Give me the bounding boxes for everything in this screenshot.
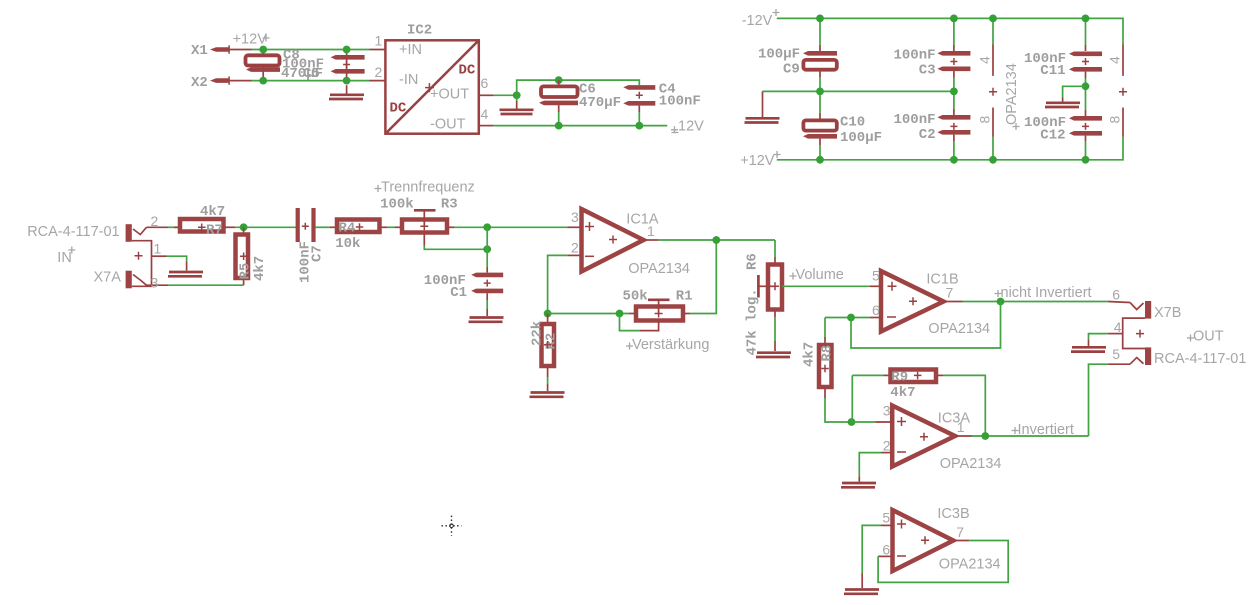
pin header X1	[210, 45, 252, 53]
wire +12V net (X1 to IC2 pin1)	[252, 49, 370, 51]
junction IC3A pin3 node	[848, 418, 856, 426]
origin cross IC1P	[1013, 123, 1020, 130]
svg-text:RCA-4-117-01: RCA-4-117-01	[1154, 351, 1246, 367]
svg-text:100µF: 100µF	[758, 47, 800, 63]
svg-text:+12V: +12V	[740, 153, 775, 169]
svg-text:4k7: 4k7	[252, 256, 268, 281]
mouse crosshair cursor	[442, 516, 462, 536]
pin 2 IC1A	[567, 240, 581, 256]
svg-text:3: 3	[151, 275, 159, 291]
svg-text:X1: X1	[191, 43, 208, 59]
label R5 with origin cross	[238, 253, 254, 280]
pin 5 IC3B	[881, 510, 893, 526]
pin 7 IC3B	[953, 524, 969, 541]
svg-text:C1: C1	[450, 285, 467, 301]
connector X7A	[126, 224, 152, 288]
capacitor C6 (electrolytic)	[539, 86, 578, 105]
ground at IC3A pin2	[841, 483, 876, 487]
svg-text:8: 8	[977, 116, 993, 124]
svg-text:4k7: 4k7	[890, 385, 915, 401]
junction R1 left	[616, 310, 624, 318]
resistor R7	[174, 219, 235, 232]
capacitor C4	[623, 85, 655, 106]
junction C4/-12V	[635, 122, 643, 130]
wire +OUT to junction	[494, 94, 517, 96]
pin 4 IC2	[479, 106, 494, 126]
capacitor C12	[1069, 116, 1102, 136]
wire R4 to R3	[387, 226, 395, 228]
wire pin1 to ground	[167, 256, 187, 262]
resistor R9	[884, 370, 944, 383]
ground below C11/C12	[1045, 103, 1080, 107]
wire pin5 down to Invertiert net	[1089, 364, 1108, 436]
net label +12V	[740, 151, 780, 169]
ground at X7B pin4	[1071, 347, 1106, 351]
wire node to R1 left	[548, 313, 629, 315]
svg-text:100nF: 100nF	[894, 48, 936, 64]
svg-text:5: 5	[882, 510, 890, 526]
svg-text:R6: R6	[744, 253, 760, 270]
svg-text:R3: R3	[441, 197, 458, 213]
capacitor C5	[331, 55, 365, 74]
svg-text:10k: 10k	[335, 236, 360, 252]
svg-text:4: 4	[481, 106, 489, 122]
pin 1 IC3A	[955, 419, 972, 436]
ground left of rails	[745, 118, 780, 122]
svg-text:3: 3	[571, 209, 579, 225]
svg-text:OPA2134: OPA2134	[928, 321, 990, 337]
pin header X2	[210, 76, 252, 84]
svg-text:100nF: 100nF	[659, 94, 701, 110]
wire R6 bottom to ground	[774, 317, 776, 341]
capacitor C7	[296, 208, 316, 242]
dc-dc converter IC2	[385, 40, 478, 133]
svg-text:IC3A: IC3A	[938, 411, 971, 427]
junction C6/-12V	[555, 122, 563, 130]
junction tap/C1	[483, 245, 491, 253]
wire pin6 node down to R8	[824, 318, 826, 338]
junction R7/R5	[240, 223, 248, 231]
svg-text:Trennfrequenz: Trennfrequenz	[381, 180, 475, 196]
capacitor C9 (electrolytic)	[803, 51, 837, 70]
svg-text:C12: C12	[1040, 128, 1065, 144]
power pins IC1P OPA2134	[989, 18, 997, 159]
resistor R5	[236, 227, 249, 285]
svg-text:+OUT: +OUT	[430, 87, 469, 103]
op-amp IC3B	[893, 510, 954, 571]
pin 6 IC2	[479, 75, 494, 95]
svg-text:4k7: 4k7	[200, 204, 225, 220]
pin 1 IC1A	[644, 223, 659, 240]
svg-text:C2: C2	[919, 127, 936, 143]
label IN	[57, 247, 75, 267]
ground below IC2 +OUT	[500, 110, 534, 114]
junction IC2 +OUT	[513, 91, 521, 99]
wire pin3 node to IC3A	[852, 421, 876, 423]
svg-text:4: 4	[977, 56, 993, 64]
connector X7B	[1123, 301, 1152, 365]
pin 4 X7B	[1108, 319, 1123, 335]
wire ground rail drop	[762, 91, 764, 117]
pin 6 X7B	[1108, 287, 1130, 303]
wire R2 to ground	[547, 377, 549, 384]
junction IC3A out	[981, 432, 989, 440]
label R7 with origin cross	[198, 223, 223, 239]
svg-text:OUT: OUT	[1193, 329, 1224, 345]
svg-text:R1: R1	[676, 289, 693, 305]
wire C5 to ground	[346, 85, 348, 94]
junction main/tap	[483, 223, 491, 231]
wire GND net (X2 to IC2 pin2)	[252, 80, 370, 82]
pin 2 IC3A	[881, 438, 892, 454]
junction R2 node	[544, 310, 552, 318]
svg-text:C9: C9	[783, 62, 800, 78]
capacitor C10 (electrolytic)	[803, 120, 837, 138]
junction X1/C8	[259, 46, 267, 54]
wire C9/C10 column	[819, 18, 821, 159]
junction IC1B out	[997, 298, 1005, 306]
pin 6 IC1B	[870, 302, 881, 318]
svg-text:2: 2	[151, 213, 159, 229]
wire out to R6	[774, 240, 776, 257]
net label -12V	[742, 9, 780, 29]
svg-text:C10: C10	[840, 115, 865, 131]
net label Trennfrequenz	[375, 180, 475, 196]
pin 2 IC2	[369, 64, 385, 81]
junction X1/C5	[343, 46, 351, 54]
junctions on -12V rail	[816, 15, 824, 23]
svg-text:50k: 50k	[623, 289, 648, 305]
junction C11 mid	[1082, 82, 1090, 90]
pin 5 X7B	[1108, 346, 1130, 364]
svg-text:2: 2	[883, 438, 891, 454]
wire R9 right to IC3A out	[943, 375, 985, 436]
label R9 with origin cross	[891, 370, 921, 386]
wire IC1A output	[659, 239, 775, 241]
wire IC1B out	[963, 301, 1108, 303]
svg-text:C11: C11	[1040, 63, 1065, 79]
power pins IC3P OPA2134	[1119, 40, 1127, 138]
ground below R2	[530, 393, 565, 397]
svg-text:nicht Invertiert: nicht Invertiert	[1001, 285, 1092, 301]
pin 7 IC1B	[944, 285, 963, 302]
wire -12V rail	[777, 18, 1123, 40]
wire C11/C12 column	[1085, 18, 1087, 159]
wire R3 wiper tap	[423, 234, 425, 246]
ground below C1	[469, 318, 504, 322]
svg-text:X7A: X7A	[94, 270, 122, 286]
svg-text:OPA2134: OPA2134	[940, 456, 1002, 472]
capacitor C8 (electrolytic plate pair)	[246, 55, 281, 72]
wire C1 to ground	[486, 293, 488, 300]
wire IC3B feedback loop	[878, 541, 1008, 583]
svg-text:100µF: 100µF	[840, 130, 882, 146]
resistor R2	[542, 314, 555, 378]
svg-text:Verstärkung: Verstärkung	[632, 337, 709, 353]
svg-text:6: 6	[481, 75, 489, 91]
label R8 with origin cross	[820, 345, 836, 373]
svg-text:2: 2	[571, 240, 579, 256]
svg-text:C5: C5	[303, 66, 320, 82]
wire -OUT rail	[494, 125, 668, 127]
svg-text:R4: R4	[339, 221, 356, 237]
junction C6 top	[555, 76, 563, 84]
pin 3 IC3A	[875, 403, 892, 423]
svg-text:2: 2	[375, 64, 383, 80]
wire R1 right to feedback	[690, 240, 716, 314]
wire mid ground rail	[763, 90, 954, 92]
capacitor C1	[471, 273, 503, 294]
op-amp IC1B	[881, 271, 944, 332]
capacitor C11	[1069, 52, 1102, 72]
svg-text:-OUT: -OUT	[430, 117, 466, 133]
potentiometer R3	[395, 210, 454, 232]
op-amp IC3A	[892, 406, 955, 467]
pin 1 IC2	[369, 33, 385, 50]
svg-text:C7: C7	[309, 245, 325, 262]
resistor R4	[330, 220, 387, 233]
potentiometer R6	[758, 257, 782, 317]
svg-text:6: 6	[882, 542, 890, 558]
svg-text:-IN: -IN	[399, 72, 418, 88]
junctions on +12V rail	[816, 156, 824, 164]
svg-text:X7B: X7B	[1154, 305, 1181, 321]
wire C3/C2 column	[953, 18, 955, 159]
wire C11 junction to ground	[1063, 86, 1086, 97]
ground at X7A pin1	[168, 272, 203, 276]
svg-text:DC: DC	[390, 101, 407, 117]
svg-text:+12V: +12V	[233, 32, 268, 48]
junction IC1A out	[712, 236, 720, 244]
label R2 with origin cross	[544, 333, 560, 350]
wire pin4 to ground	[1089, 334, 1108, 340]
svg-text:4: 4	[1107, 56, 1123, 64]
wire +12V rail	[777, 138, 1123, 160]
pin 5 IC1B	[870, 268, 881, 287]
svg-text:R7: R7	[206, 223, 223, 239]
net label +12V	[233, 32, 270, 48]
svg-text:IC3B: IC3B	[937, 506, 969, 522]
wire IC3A out	[972, 435, 1089, 437]
svg-text:Volume: Volume	[796, 267, 844, 283]
svg-text:IC1B: IC1B	[926, 272, 958, 288]
wire C4 bottom to -12V rail	[638, 106, 640, 112]
pin 6 IC3B	[878, 542, 892, 558]
svg-text:OPA2134: OPA2134	[1004, 63, 1020, 125]
svg-text:7: 7	[946, 285, 954, 301]
svg-text:4k7: 4k7	[802, 342, 818, 367]
wire R7 to junction	[235, 226, 296, 228]
svg-text:6: 6	[872, 302, 880, 318]
capacitor C3	[937, 51, 970, 71]
svg-text:100k: 100k	[380, 197, 414, 213]
junction IC1B pin6	[847, 314, 855, 322]
net label nicht Invertiert	[995, 285, 1092, 301]
ground at IC3B pin5	[844, 590, 879, 594]
wire C6 bottom to -12V rail	[558, 105, 560, 112]
svg-text:IC2: IC2	[407, 23, 432, 39]
svg-text:100nF: 100nF	[894, 112, 936, 128]
net label Volume	[790, 267, 844, 283]
ground below C5	[329, 95, 364, 99]
wire junction down to C1	[486, 227, 488, 249]
wire IC1B feedback loop	[825, 302, 1001, 349]
junction X2/C8	[259, 77, 267, 85]
svg-text:RCA-4-117-01: RCA-4-117-01	[27, 224, 119, 240]
ground below R6	[756, 353, 791, 357]
svg-text:R9: R9	[891, 370, 908, 386]
capacitor C2	[937, 115, 970, 135]
resistor R8	[819, 337, 832, 398]
pin 3 IC1A	[567, 209, 581, 227]
svg-text:R2: R2	[544, 333, 560, 350]
svg-text:1: 1	[957, 419, 965, 435]
svg-text:OPA2134: OPA2134	[939, 557, 1001, 573]
svg-text:3: 3	[883, 403, 891, 419]
svg-text:X2: X2	[191, 75, 208, 91]
svg-text:OPA2134: OPA2134	[628, 261, 690, 277]
wire pin2 to R7	[168, 226, 178, 228]
svg-text:8: 8	[1107, 116, 1123, 124]
svg-text:C3: C3	[919, 63, 936, 79]
svg-text:R8: R8	[820, 345, 836, 362]
wire C7 to R4	[316, 226, 330, 228]
svg-text:1: 1	[375, 33, 383, 49]
net label Invertiert	[1012, 422, 1074, 438]
wire C5 column	[346, 50, 348, 81]
svg-text:IN: IN	[57, 250, 72, 266]
svg-text:47k log.: 47k log.	[744, 288, 760, 355]
svg-text:5: 5	[872, 268, 880, 284]
wire C6 top stub	[558, 80, 560, 86]
pin 1 X7A	[152, 241, 167, 257]
op-amp IC1A	[582, 209, 644, 272]
wire R9 left branch	[852, 375, 883, 422]
junctions on ground rail	[816, 88, 824, 96]
svg-text:DC: DC	[459, 63, 476, 79]
svg-text:470µF: 470µF	[579, 95, 621, 111]
svg-text:4: 4	[1114, 319, 1122, 335]
svg-text:7: 7	[956, 524, 964, 540]
wire pin2 to ground	[859, 453, 881, 477]
label OUT	[1187, 329, 1224, 345]
svg-text:12V: 12V	[678, 119, 704, 135]
wire C8 column	[262, 50, 264, 81]
pin 2 X7A	[147, 213, 169, 229]
svg-text:1: 1	[647, 223, 655, 239]
wire +OUT to ground	[516, 95, 518, 101]
wire pin3 to R5 bottom	[168, 284, 244, 286]
svg-text:Invertiert: Invertiert	[1018, 422, 1074, 438]
wire IC1A pin2 to R2/R1 node	[548, 255, 568, 313]
svg-text:1: 1	[154, 241, 162, 257]
potentiometer R1	[620, 300, 691, 331]
wire R3 to IC1A pin3	[454, 226, 567, 228]
svg-text:+IN: +IN	[399, 42, 422, 58]
label R4 with origin cross	[339, 221, 364, 237]
wire R6 wiper to IC1B pin5	[782, 285, 870, 287]
svg-text:5: 5	[1112, 346, 1120, 362]
wire +OUT up and across to C6/C4	[517, 80, 640, 95]
wire R8 bottom to pin3 node	[825, 398, 852, 422]
junction X2/C5	[343, 77, 351, 85]
svg-text:-12V: -12V	[742, 13, 773, 29]
net label Verstärkung	[626, 337, 709, 353]
pin 3 X7A	[147, 275, 169, 291]
wire pin5 to ground	[862, 525, 881, 573]
net label -12V at IC2	[671, 119, 704, 135]
svg-text:6: 6	[1112, 287, 1120, 303]
